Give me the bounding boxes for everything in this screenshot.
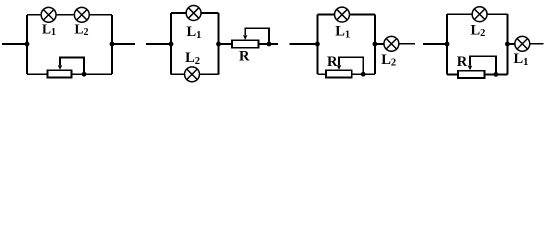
junction dot rheostat tap circuit 4 xyxy=(494,72,499,77)
wire right lead circuit 1 xyxy=(112,43,135,45)
rheostat R body circuit 3 xyxy=(326,70,352,77)
lamp L1 circuit 2 xyxy=(186,6,201,21)
wire bottom edge right circuit 3 xyxy=(352,73,375,75)
wire rheostat slider arm circuit 3 xyxy=(339,57,363,74)
junction dot circuit 3 right xyxy=(373,42,378,47)
junction dot circuit 4 right xyxy=(505,42,510,47)
wire rheostat slider arm circuit 1 xyxy=(60,57,84,74)
junction dot circuit 2 left xyxy=(169,42,174,47)
lamp L2 circuit 1 xyxy=(74,7,89,22)
lamp L2 circuit 4 xyxy=(472,7,487,22)
wire top edge after L1 circuit 3 xyxy=(350,14,375,16)
wire to resistor R circuit 2 xyxy=(219,43,233,45)
rheostat body circuit 1 xyxy=(48,70,72,77)
junction dot circuit 1 right xyxy=(110,42,115,47)
wire bottom edge after L2 circuit 2 xyxy=(200,73,219,75)
wire top edge between lamps circuit 1 xyxy=(56,14,73,16)
junction dot circuit 4 left xyxy=(445,42,450,47)
arrowhead rheostat slider circuit 1 xyxy=(58,65,62,70)
svg-text:L2: L2 xyxy=(381,52,396,69)
lamp L2 circuit 2 xyxy=(185,67,200,82)
svg-text:L2: L2 xyxy=(185,50,200,67)
junction dot circuit 2 right xyxy=(267,42,272,47)
wire to lamp L2 circuit 3 xyxy=(375,43,384,45)
resistor R body circuit 2 xyxy=(232,40,259,47)
wire bottom edge left circuit 3 xyxy=(317,73,326,75)
wire bottom edge right circuit 4 xyxy=(485,73,508,75)
junction dot circuit 3 left xyxy=(315,42,320,47)
wire left lead circuit 3 xyxy=(290,43,318,45)
svg-text:R: R xyxy=(457,54,468,70)
lamp L2 circuit 3 xyxy=(384,36,399,51)
wire right lead circuit 2 xyxy=(269,43,278,45)
wire left edge circuit 3 xyxy=(316,15,318,75)
wire left lead circuit 2 xyxy=(146,43,171,45)
wire top edge to lamp L2 circuit 4 xyxy=(447,13,472,15)
wire to lamp L1 circuit 4 xyxy=(507,43,514,45)
arrowhead rheostat slider circuit 2 xyxy=(243,35,247,40)
wire right lead circuit 4 xyxy=(530,43,544,45)
wire left edge circuit 2 xyxy=(170,13,172,74)
wire right edge circuit 3 xyxy=(374,15,376,75)
wire left lead circuit 4 xyxy=(423,43,447,45)
svg-text:L2: L2 xyxy=(74,21,88,38)
wire right edge circuit 2 xyxy=(218,13,220,74)
lamp L1 circuit 4 xyxy=(515,36,530,51)
wire bottom edge to lamp L2 circuit 2 xyxy=(171,73,184,75)
svg-text:R: R xyxy=(239,48,250,64)
junction dot circuit 2 mid xyxy=(216,42,221,47)
wire top edge to lamp L1 circuit 1 xyxy=(27,14,41,16)
wire right edge circuit 1 xyxy=(111,15,113,74)
wire top edge after L1 circuit 2 xyxy=(201,12,218,14)
wire from resistor R circuit 2 xyxy=(259,43,270,45)
lamp L1 circuit 1 xyxy=(41,7,56,22)
lamp L1 circuit 3 xyxy=(335,7,350,22)
wire top edge after L2 circuit 4 xyxy=(487,13,507,15)
wire bottom edge right circuit 1 xyxy=(72,73,113,75)
svg-text:L1: L1 xyxy=(335,24,350,41)
svg-text:R: R xyxy=(327,54,338,70)
svg-text:L2: L2 xyxy=(470,23,485,40)
wire top edge after L2 circuit 1 xyxy=(90,14,113,16)
junction dot rheostat tap circuit 1 xyxy=(82,72,87,77)
junction dot rheostat tap circuit 3 xyxy=(361,72,366,77)
arrowhead rheostat slider circuit 3 xyxy=(337,65,341,70)
wire rheostat slider arm circuit 2 xyxy=(245,28,269,44)
wire right lead circuit 3 xyxy=(399,43,415,45)
rheostat R body circuit 4 xyxy=(458,71,485,78)
wire left edge circuit 1 xyxy=(26,15,28,74)
wire bottom edge left circuit 1 xyxy=(27,73,48,75)
svg-text:L1: L1 xyxy=(513,51,528,68)
svg-text:L1: L1 xyxy=(42,21,56,38)
wire rheostat slider arm circuit 4 xyxy=(470,56,496,74)
junction dot circuit 1 left xyxy=(25,42,30,47)
wire top edge to lamp L1 circuit 3 xyxy=(317,14,334,16)
wire left edge circuit 4 xyxy=(446,14,448,74)
wire right edge circuit 4 xyxy=(506,14,508,74)
wire bottom edge left circuit 4 xyxy=(447,73,458,75)
arrowhead rheostat slider circuit 4 xyxy=(468,66,472,71)
svg-text:L1: L1 xyxy=(186,24,201,41)
wire left lead circuit 1 xyxy=(2,43,27,45)
wire top edge to lamp L1 circuit 2 xyxy=(171,12,186,14)
